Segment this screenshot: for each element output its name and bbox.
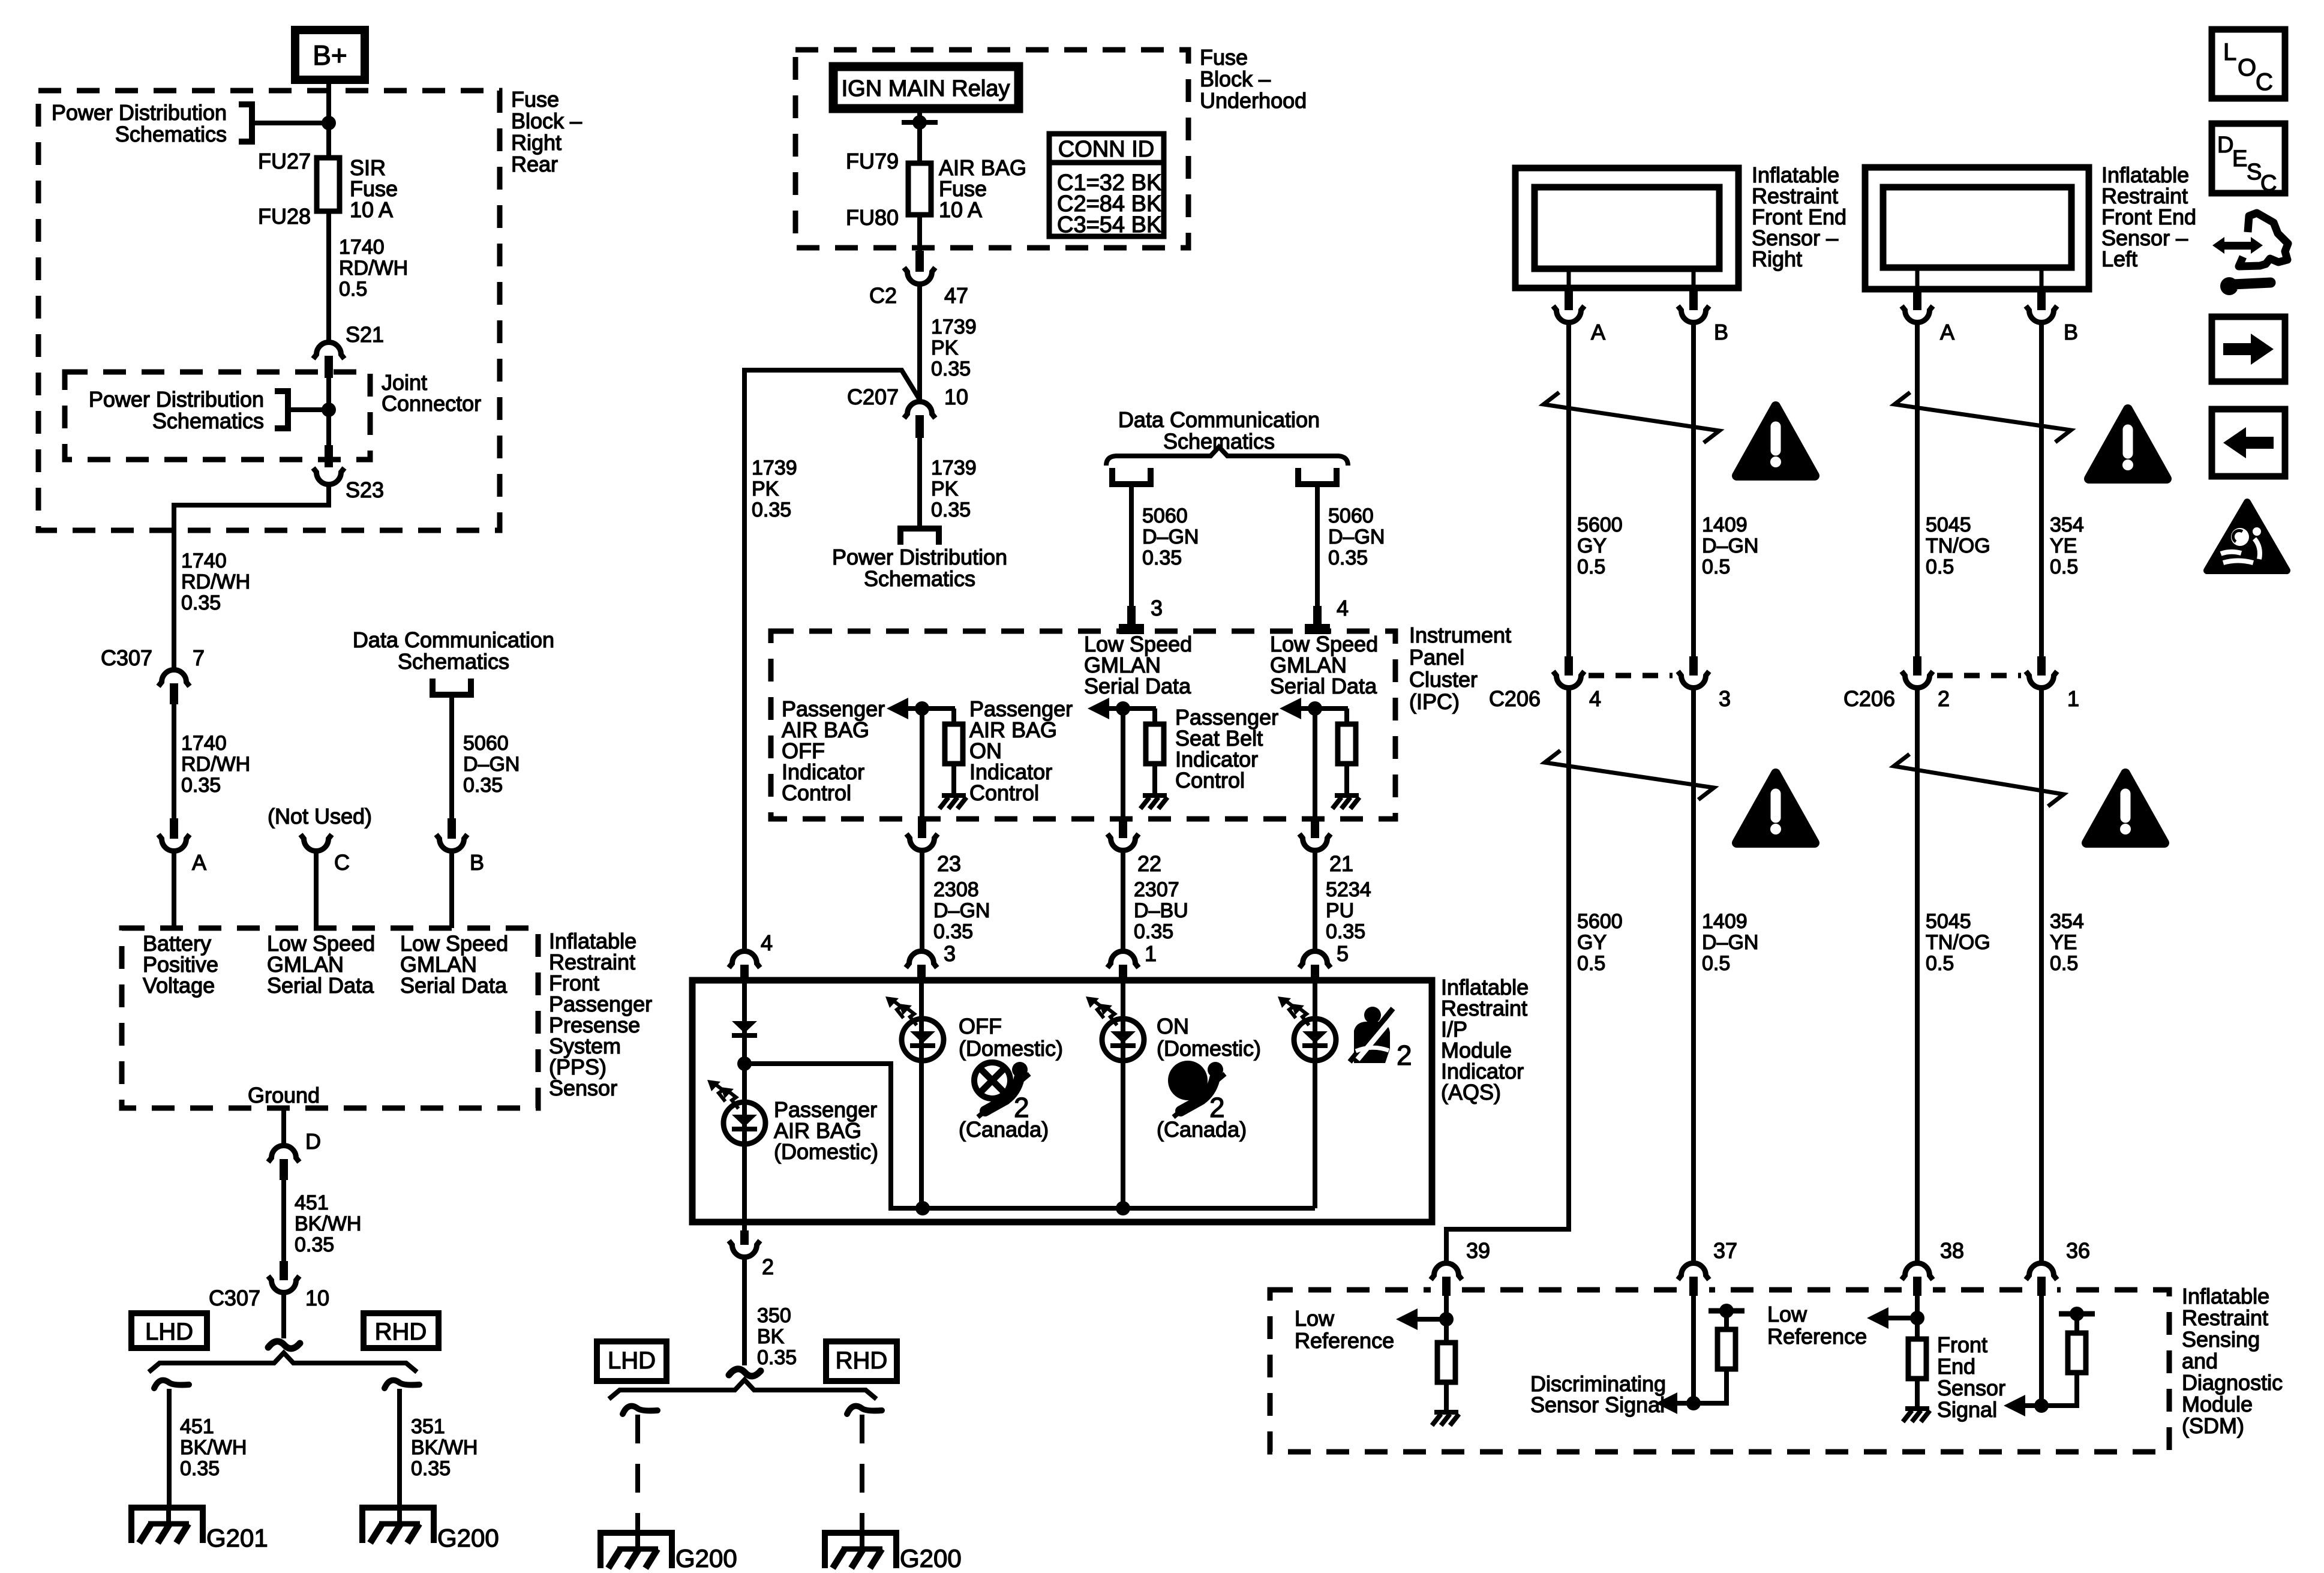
svg-text:Schematics: Schematics	[115, 122, 227, 146]
node junction SDM36	[2034, 1398, 2049, 1413]
label B	[470, 850, 484, 875]
svg-text:(Domestic): (Domestic)	[774, 1139, 878, 1164]
label Inflatable Restraint I/P Module Indicator (AQS)	[1441, 975, 1529, 1104]
sensor left pin B stub	[2040, 268, 2044, 289]
label Passenger AIR BAG OFF Indicator Control	[782, 697, 885, 805]
label 22	[1137, 851, 1161, 876]
svg-text:0.5: 0.5	[1577, 952, 1605, 975]
wire cathode bus riser	[744, 1064, 1315, 1208]
svg-text:D–BU: D–BU	[1134, 899, 1188, 922]
splice S23 connector	[313, 445, 344, 485]
label Power Distribution Schematics (joint)	[89, 387, 264, 433]
off-page bracket Power Distribution Schematics (joint)	[275, 391, 329, 428]
sensor right pin A stub	[1567, 269, 1571, 289]
svg-text:1: 1	[2067, 686, 2079, 711]
svg-text:Reference: Reference	[1295, 1328, 1394, 1353]
label 5600 GY 0.5 (lower)	[1577, 910, 1623, 975]
label C307 (pin10)	[209, 1286, 260, 1310]
ground G200 (left)	[362, 1508, 434, 1543]
wire C2 to C207	[917, 285, 922, 400]
svg-text:0.5: 0.5	[1926, 952, 1954, 975]
svg-text:RD/WH: RD/WH	[181, 753, 250, 776]
icon airbag ON (filled)	[1168, 1061, 1225, 1117]
svg-text:1: 1	[1145, 941, 1157, 966]
svg-text:Sensor: Sensor	[549, 1076, 617, 1100]
label Passenger AIR BAG (Domestic)	[774, 1097, 878, 1164]
svg-text:Data Communication: Data Communication	[353, 628, 554, 652]
box AQS module	[692, 980, 1432, 1222]
connector AQS pin 2	[729, 1230, 760, 1257]
wire GMLAN to IPC pin 4	[1315, 484, 1320, 606]
label SIR Fuse 10 A	[350, 155, 398, 222]
arrow Low Reference (39)	[1396, 1308, 1446, 1330]
warning triangle 3	[1737, 773, 1815, 843]
label (Canada) on	[1157, 1117, 1247, 1142]
connector C207 pin 10	[904, 401, 935, 438]
svg-text:5045: 5045	[1926, 910, 1971, 933]
label Front End Sensor Signal	[1937, 1332, 2005, 1422]
T-resistor SDM37	[1694, 1304, 1744, 1403]
svg-text:2308: 2308	[933, 878, 979, 901]
connector PPS pin D	[268, 1146, 299, 1181]
label S21	[346, 322, 384, 347]
svg-text:D–GN: D–GN	[463, 753, 520, 776]
svg-text:0.5: 0.5	[1702, 556, 1730, 578]
label 37	[1713, 1238, 1737, 1263]
arrow Front End Sensor Signal (36)	[2004, 1395, 2041, 1416]
icon box arrow right	[2212, 317, 2285, 382]
label Power Distribution Schematics (mid)	[832, 545, 1007, 591]
diode D1 on pin4 wire	[732, 1021, 757, 1038]
svg-text:Serial Data: Serial Data	[400, 973, 508, 998]
svg-text:FU80: FU80	[846, 205, 899, 230]
wire break squiggle (mid split)	[729, 1369, 761, 1376]
dashes C206 left pair	[1589, 673, 1673, 679]
svg-text:D–GN: D–GN	[1702, 931, 1758, 954]
label Joint Connector	[382, 370, 481, 416]
label B (right sensor)	[1714, 320, 1728, 344]
label OFF (Domestic)	[959, 1014, 1063, 1061]
label 36	[2066, 1238, 2090, 1263]
wire AQS pin5 internal	[1313, 981, 1317, 1208]
label Data Communication Schematics (mid)	[1118, 407, 1320, 454]
svg-text:IGN MAIN Relay: IGN MAIN Relay	[842, 76, 1010, 101]
wire C206-3 to SDM 37	[1691, 689, 1696, 1261]
svg-text:Rear: Rear	[511, 152, 558, 176]
svg-text:2: 2	[1938, 686, 1950, 711]
node junction SDM37	[1686, 1396, 1701, 1410]
label 4 (aqs)	[761, 930, 773, 955]
brace LHD/RHD split (left)	[149, 1353, 417, 1372]
svg-text:0.35: 0.35	[411, 1457, 451, 1480]
label S23	[346, 478, 384, 502]
label Low Speed GMLAN Serial Data (pps2)	[400, 931, 508, 998]
label FU28	[258, 204, 311, 229]
svg-text:Schematics: Schematics	[152, 409, 264, 433]
ground G200 (mid b)	[825, 1533, 896, 1568]
LED Seat Belt indicator	[1278, 996, 1336, 1061]
box LHD (mid)	[597, 1341, 666, 1381]
svg-text:1739: 1739	[931, 457, 977, 479]
svg-text:Restraint: Restraint	[2182, 1305, 2268, 1330]
box RHD (mid)	[826, 1341, 897, 1381]
svg-text:451: 451	[295, 1191, 329, 1214]
svg-text:10 A: 10 A	[350, 197, 393, 222]
node bus junction pin1 wire	[1116, 1201, 1130, 1215]
off-page bracket power distribution (mid)	[900, 529, 939, 545]
label 1409 D-GN 0.5 (lower)	[1702, 910, 1758, 975]
svg-text:D–GN: D–GN	[1328, 526, 1385, 548]
wire SDM38 resistor to ground	[1915, 1379, 1920, 1407]
wire sensor left B to C206-1	[2039, 323, 2044, 656]
sensor right pin B stub	[1692, 269, 1696, 289]
svg-text:G200: G200	[675, 1544, 737, 1572]
svg-text:1740: 1740	[181, 732, 227, 755]
svg-text:5060: 5060	[1328, 505, 1374, 527]
connector AQS pin 4	[729, 951, 760, 982]
svg-text:(SDM): (SDM)	[2182, 1413, 2244, 1438]
svg-text:Schematics: Schematics	[864, 566, 975, 591]
label 1740 RD/WH 0.35 (lower)	[181, 732, 250, 797]
IPC channel 23 Passenger AIR BAG OFF Indicator Control	[887, 698, 966, 949]
node junction below diode	[737, 1056, 752, 1071]
svg-text:G200: G200	[437, 1524, 499, 1552]
svg-text:E: E	[2232, 146, 2247, 172]
svg-text:PK: PK	[931, 337, 959, 359]
arrow Discriminating Sensor Signal	[1656, 1392, 1694, 1414]
svg-text:0.35: 0.35	[752, 499, 791, 521]
gather brace data comm	[1106, 447, 1348, 466]
svg-text:Reference: Reference	[1767, 1324, 1867, 1349]
svg-text:354: 354	[2050, 514, 2084, 536]
svg-text:0.35: 0.35	[295, 1233, 334, 1256]
label AIR BAG Fuse 10 A	[939, 155, 1026, 222]
label Low Reference (38)	[1767, 1302, 1867, 1349]
svg-text:2307: 2307	[1134, 878, 1179, 901]
label 5600 GY 0.5 (upper)	[1577, 514, 1623, 578]
label C207	[847, 385, 899, 409]
node junction SDM39	[1439, 1312, 1454, 1326]
svg-text:ON: ON	[1157, 1014, 1189, 1038]
svg-text:Low: Low	[1767, 1302, 1807, 1326]
svg-text:Left: Left	[2101, 247, 2137, 271]
svg-text:(Not Used): (Not Used)	[268, 804, 372, 828]
wire AQS pin1 internal	[1121, 981, 1125, 1208]
wire S21 to S23	[326, 378, 331, 445]
branch curl mid G200b	[847, 1406, 882, 1414]
svg-text:(Domestic): (Domestic)	[959, 1036, 1063, 1061]
relay box IGN MAIN Relay	[833, 67, 1019, 109]
svg-text:0.5: 0.5	[1577, 556, 1605, 578]
svg-text:4: 4	[1589, 686, 1601, 711]
label 2 (off canada)	[1014, 1092, 1029, 1123]
svg-text:1740: 1740	[339, 236, 385, 259]
connector AQS pin 1	[1107, 951, 1139, 982]
label 2307 D-BU 0.35	[1134, 878, 1188, 943]
icon airbag OFF (crossed)	[974, 1062, 1029, 1117]
svg-text:1739: 1739	[752, 457, 797, 479]
wire sensor right B to C206-3	[1691, 323, 1696, 656]
ground G200 (mid a)	[600, 1533, 672, 1568]
svg-text:Right: Right	[511, 130, 562, 155]
label Battery Positive Voltage	[143, 931, 218, 998]
connector SDM pin 36	[2026, 1263, 2057, 1296]
svg-text:5045: 5045	[1926, 514, 1971, 536]
svg-text:Underhood: Underhood	[1200, 88, 1307, 113]
svg-text:Module: Module	[2182, 1392, 2253, 1416]
svg-text:L: L	[2223, 39, 2236, 65]
warning triangle 2	[2089, 409, 2167, 479]
svg-text:Control: Control	[782, 781, 851, 805]
wire S23 down-left	[174, 485, 329, 668]
svg-text:C206: C206	[1843, 686, 1895, 711]
wire SDM 39 internal	[1444, 1296, 1449, 1343]
svg-text:O: O	[2238, 55, 2256, 81]
svg-text:22: 22	[1137, 851, 1161, 876]
svg-text:Power Distribution: Power Distribution	[832, 545, 1007, 569]
svg-text:RD/WH: RD/WH	[181, 571, 250, 593]
wire SDM39 resistor to ground	[1444, 1382, 1449, 1411]
label C307 (pin7)	[101, 646, 152, 670]
svg-text:D: D	[2217, 133, 2233, 158]
label 4 (c206)	[1589, 686, 1601, 711]
connector PPS pin C (not used)	[301, 834, 332, 851]
svg-text:3: 3	[944, 941, 956, 966]
label 451 BK/WH 0.35 (upper)	[295, 1191, 361, 1256]
wire D to C307-10	[281, 1180, 286, 1261]
wire to G201	[167, 1389, 172, 1508]
wire C307-7 to PPS pin A	[172, 704, 176, 818]
label 3 (ipc)	[1151, 596, 1163, 620]
dashed wire to G200 a	[635, 1415, 640, 1533]
label 38	[1940, 1238, 1964, 1263]
label 5060 D-GN 0.35 (left)	[463, 732, 520, 797]
svg-text:GY: GY	[1577, 931, 1607, 954]
wire GMLAN to IPC pin 3	[1129, 484, 1134, 606]
off-page bracket GMLAN wire 3	[1112, 468, 1151, 484]
LED OFF Domestic	[885, 996, 944, 1061]
svg-text:GY: GY	[1577, 535, 1607, 557]
svg-text:Sensor Signal: Sensor Signal	[1530, 1392, 1665, 1417]
label Fuse Block - Right Rear	[511, 87, 582, 176]
svg-text:Right: Right	[1752, 247, 1802, 271]
dashed wire to G200 b	[860, 1415, 864, 1533]
svg-text:D–GN: D–GN	[1702, 535, 1758, 557]
svg-text:C: C	[334, 850, 350, 875]
svg-text:7: 7	[193, 646, 205, 670]
label Ground	[248, 1083, 320, 1107]
svg-text:451: 451	[180, 1415, 214, 1438]
svg-text:C207: C207	[847, 385, 899, 409]
icon box arrow left	[2212, 409, 2285, 476]
label Fuse Block - Underhood	[1200, 45, 1307, 113]
svg-text:and: and	[2182, 1349, 2218, 1373]
svg-text:RHD: RHD	[375, 1319, 427, 1345]
label C206 (left pair)	[1489, 686, 1541, 711]
branch curl mid G200a	[623, 1406, 657, 1414]
icon wrench double arrow	[2212, 213, 2288, 295]
connector IPC pin 3 terminal	[1119, 606, 1144, 634]
label 1739 PK 0.35 (below C207)	[931, 457, 977, 521]
svg-text:S21: S21	[346, 322, 384, 347]
label Power Distribution Schematics (top)	[52, 100, 227, 146]
label 451 BK/WH 0.35 (lower)	[180, 1415, 247, 1480]
label ON (Domestic)	[1157, 1014, 1261, 1061]
svg-text:0.5: 0.5	[1926, 556, 1954, 578]
svg-text:D: D	[305, 1129, 321, 1154]
svg-text:B: B	[1714, 320, 1728, 344]
label 2 (aqs pin)	[762, 1254, 774, 1279]
label 2308 D-GN 0.35	[933, 878, 990, 943]
dashed box Fuse Block - Underhood	[795, 50, 1188, 248]
svg-text:End: End	[1937, 1354, 1975, 1379]
off-page bracket GMLAN wire 4	[1298, 468, 1337, 484]
svg-text:2: 2	[762, 1254, 774, 1279]
svg-text:0.35: 0.35	[933, 920, 973, 943]
wire branch to AQS pin 4	[744, 370, 920, 949]
svg-text:FU28: FU28	[258, 204, 311, 229]
label 2 (c206)	[1938, 686, 1950, 711]
label 351 BK/WH 0.35	[411, 1415, 478, 1480]
wire SDM 37 internal	[1691, 1296, 1696, 1403]
label Instrument Panel Cluster (IPC)	[1409, 623, 1511, 714]
warning triangle 4	[2086, 773, 2164, 843]
svg-text:39: 39	[1466, 1238, 1490, 1263]
svg-text:FU79: FU79	[846, 149, 899, 173]
wire AQS pin2 down	[742, 1258, 747, 1365]
label Low Speed GMLAN Serial Data (ipc2)	[1270, 632, 1378, 698]
label Low Speed GMLAN Serial Data (pps1)	[267, 931, 375, 998]
fuse FU79/FU80 AIR BAG Fuse 10A	[908, 163, 931, 215]
label 2 (belt)	[1397, 1040, 1412, 1071]
wire break squiggle (left split)	[268, 1341, 300, 1349]
label 5060 D-GN 0.35 (ipc3)	[1142, 505, 1199, 569]
label 1740 RD/WH 0.5	[339, 236, 408, 301]
svg-text:3: 3	[1151, 596, 1163, 620]
label 354 YE 0.5 (lower)	[2050, 910, 2084, 975]
svg-text:Front: Front	[1937, 1332, 1987, 1357]
wire sensor right A to C206-4	[1566, 323, 1571, 656]
splice S21 connector	[313, 343, 344, 379]
label 5 (aqs)	[1337, 941, 1349, 966]
node junction SDM38	[1910, 1311, 1924, 1325]
label G200 (mid b)	[900, 1544, 962, 1572]
IPC channel 21 Passenger Seat Belt Indicator Control	[1280, 698, 1359, 949]
svg-text:C: C	[2260, 171, 2277, 196]
connector C2 pin 47	[904, 251, 935, 284]
svg-text:10: 10	[944, 385, 968, 409]
svg-text:5234: 5234	[1326, 878, 1371, 901]
label G200 (mid a)	[675, 1544, 737, 1572]
svg-text:Data Communication: Data Communication	[1118, 407, 1320, 432]
brace LHD/RHD split (mid)	[609, 1380, 876, 1399]
svg-text:Fuse: Fuse	[511, 87, 559, 112]
label PPS sensor name	[549, 929, 652, 1100]
box RHD (left)	[364, 1313, 439, 1348]
svg-text:CONN ID: CONN ID	[1058, 137, 1154, 162]
svg-text:Sensor: Sensor	[1937, 1376, 2005, 1400]
svg-text:D–GN: D–GN	[1142, 526, 1199, 548]
svg-text:0.5: 0.5	[2050, 952, 2078, 975]
off-page bracket Power Distribution Schematics (top)	[239, 104, 329, 142]
label 1409 D-GN 0.5 (upper)	[1702, 514, 1758, 578]
svg-text:D–GN: D–GN	[933, 899, 990, 922]
label (Canada) off	[959, 1117, 1049, 1142]
svg-text:G201: G201	[206, 1524, 268, 1552]
svg-text:(IPC): (IPC)	[1409, 689, 1460, 714]
label B (left sensor)	[2064, 320, 2078, 344]
label Inflatable Restraint Sensing and Diagnostic Module (SDM)	[2182, 1284, 2283, 1438]
svg-text:C2: C2	[869, 283, 897, 308]
label 5045 TN/OG 0.5 (lower)	[1926, 910, 1990, 975]
svg-text:Inflatable: Inflatable	[2182, 1284, 2269, 1308]
label 39	[1466, 1238, 1490, 1263]
svg-text:Control: Control	[969, 781, 1039, 805]
svg-text:(AQS): (AQS)	[1441, 1080, 1501, 1104]
wire AQS pin3 internal	[919, 981, 924, 1208]
svg-text:RD/WH: RD/WH	[339, 257, 408, 280]
icon seat belt person	[1350, 1007, 1393, 1063]
wire sensor left A to C206-2	[1915, 323, 1920, 656]
label Data Communication Schematics (left)	[353, 628, 554, 674]
svg-text:Signal: Signal	[1937, 1397, 1997, 1422]
svg-text:0.35: 0.35	[181, 592, 221, 614]
label FU79	[846, 149, 899, 173]
svg-text:Ground: Ground	[248, 1083, 320, 1107]
svg-text:S: S	[2247, 160, 2262, 185]
ground G201	[131, 1508, 203, 1543]
dashed box Joint Connector	[65, 372, 370, 460]
svg-text:354: 354	[2050, 910, 2084, 933]
connector C206 pin 2	[1902, 656, 1933, 688]
warning triangle 1	[1737, 406, 1815, 476]
label 354 YE 0.5 (upper)	[2050, 514, 2084, 578]
connector IPC pin 4 terminal	[1305, 606, 1330, 634]
svg-text:B: B	[470, 850, 484, 875]
connector SDM pin 37	[1678, 1263, 1709, 1296]
label A (left sensor)	[1940, 320, 1954, 344]
svg-text:0.35: 0.35	[1134, 920, 1173, 943]
label Inflatable Restraint Front End Sensor Left	[2101, 163, 2196, 271]
svg-text:A: A	[192, 850, 206, 875]
svg-text:Voltage: Voltage	[143, 973, 215, 998]
svg-text:1409: 1409	[1702, 514, 1747, 536]
svg-text:5600: 5600	[1577, 514, 1623, 536]
svg-text:0.35: 0.35	[1142, 547, 1182, 569]
off-page bracket data comm (left)	[433, 679, 471, 695]
label FU27	[258, 149, 311, 173]
svg-text:(Canada): (Canada)	[959, 1117, 1049, 1142]
connector C307 pin 7	[158, 670, 190, 705]
svg-text:47: 47	[944, 283, 968, 308]
IPC channel 22 Passenger AIR BAG ON Indicator Control	[1088, 698, 1167, 949]
connector sensor right pin B	[1678, 289, 1709, 323]
label (Not Used)	[268, 804, 372, 828]
svg-text:Cluster: Cluster	[1409, 667, 1478, 692]
svg-text:C307: C307	[101, 646, 152, 670]
connector SDM pin 39	[1431, 1263, 1462, 1296]
wire pin B stub	[449, 852, 454, 928]
svg-text:5060: 5060	[1142, 505, 1188, 527]
wire SDM 36 internal	[2039, 1296, 2044, 1406]
svg-text:Serial Data: Serial Data	[1084, 674, 1191, 698]
label Low Speed GMLAN Serial Data (ipc1)	[1084, 632, 1192, 698]
svg-text:0.35: 0.35	[180, 1457, 220, 1480]
connector PPS pin B	[436, 818, 467, 851]
LED Passenger AIR BAG Domestic	[707, 1080, 765, 1144]
svg-text:5: 5	[1337, 941, 1349, 966]
dashes C206 right pair	[1937, 673, 2021, 679]
